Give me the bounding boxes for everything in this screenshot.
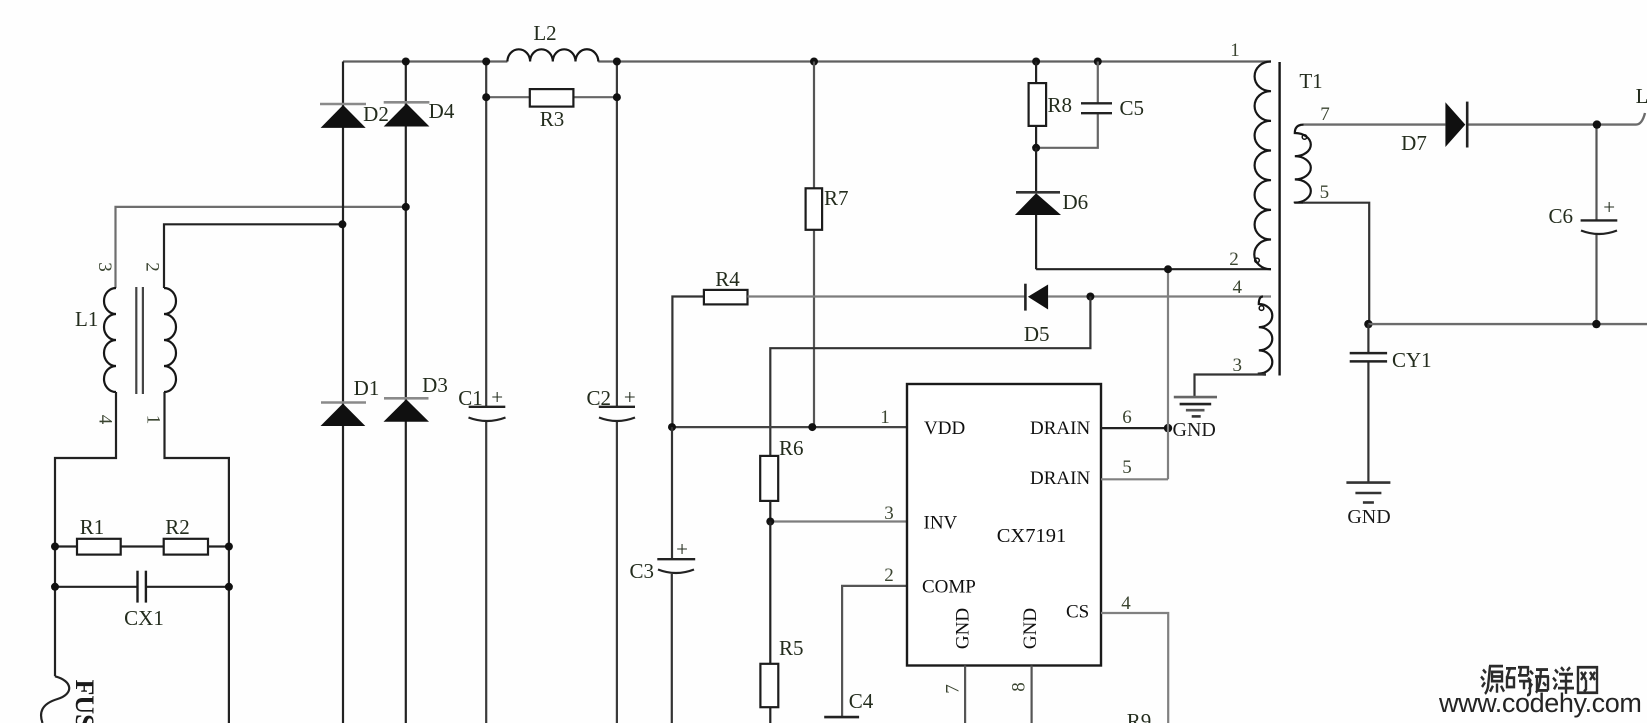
- wire INV row: [766, 518, 907, 526]
- diode D1: [321, 376, 380, 426]
- svg-text:R8: R8: [1048, 93, 1073, 117]
- svg-text:7: 7: [1320, 104, 1330, 125]
- svg-text:D2: D2: [363, 102, 389, 126]
- svg-text:D4: D4: [429, 99, 455, 123]
- svg-text:7: 7: [943, 684, 964, 694]
- wire VDD row: [672, 426, 907, 428]
- svg-text:CX7191: CX7191: [997, 525, 1066, 547]
- svg-text:C6: C6: [1548, 204, 1573, 228]
- svg-text:D5: D5: [1024, 322, 1050, 346]
- wire C2 vertical branch: [616, 62, 618, 723]
- svg-text:R9: R9: [1127, 709, 1152, 723]
- capacitor C2: [586, 385, 635, 421]
- diode D3: [384, 373, 448, 422]
- svg-text:CS: CS: [1066, 602, 1089, 623]
- svg-text:R1: R1: [80, 515, 105, 539]
- svg-text:4: 4: [1121, 593, 1131, 614]
- svg-text:R5: R5: [779, 636, 804, 660]
- node dots R1/CX1 rows: [51, 543, 233, 591]
- node dot D5 output: [1086, 293, 1094, 301]
- transformer T1 aux winding: [1233, 277, 1273, 376]
- wire top AC bus: [343, 60, 1271, 62]
- svg-text:C3: C3: [629, 559, 654, 583]
- svg-text:+: +: [1603, 195, 1615, 219]
- svg-text:C2: C2: [586, 386, 611, 410]
- capacitor CY1: [1350, 324, 1432, 483]
- wire D5 to R6 feedback: [770, 297, 1090, 456]
- svg-text:1: 1: [880, 407, 890, 428]
- svg-text:5: 5: [1122, 457, 1132, 478]
- transformer T1 primary winding: [1229, 40, 1271, 270]
- diode D2: [320, 102, 389, 128]
- svg-text:CX1: CX1: [124, 606, 164, 630]
- svg-text:3: 3: [94, 262, 115, 272]
- inductor L2: [507, 21, 598, 62]
- svg-text:T1: T1: [1299, 69, 1322, 93]
- svg-text:1: 1: [1230, 40, 1240, 61]
- IC pin 8 stub: [1009, 666, 1032, 723]
- svg-text:C4: C4: [849, 689, 874, 713]
- svg-text:L: L: [1636, 84, 1647, 108]
- capacitor C1: [458, 385, 505, 421]
- wire L1 pin3 to D4 junction row: [116, 207, 406, 288]
- wire secondary pin5 down: [1303, 203, 1369, 324]
- IC pin number 6: [1122, 407, 1132, 428]
- IC pin 7 stub: [943, 666, 966, 723]
- svg-text:GND: GND: [1347, 506, 1390, 528]
- svg-text:+: +: [491, 385, 503, 409]
- svg-text:FUSE: FUSE: [70, 680, 99, 723]
- resistor R4: [672, 267, 747, 427]
- diode D6: [1015, 148, 1088, 269]
- svg-text:4: 4: [1233, 277, 1243, 298]
- IC pin number 5: [1122, 457, 1132, 478]
- node dot D4 row: [402, 203, 410, 211]
- wire D4-D3 vertical branch: [405, 62, 407, 723]
- svg-text:1: 1: [143, 415, 164, 425]
- wire DRAIN pin5 row: [1101, 269, 1168, 479]
- svg-text:D6: D6: [1063, 190, 1089, 214]
- common mode choke L1: [75, 262, 176, 425]
- svg-text:DRAIN: DRAIN: [1030, 418, 1090, 439]
- diode D5: [1024, 284, 1050, 346]
- svg-text:GND: GND: [1020, 608, 1041, 649]
- svg-text:R3: R3: [540, 107, 565, 131]
- resistor R8: [1029, 62, 1072, 148]
- resistor R6: [760, 436, 803, 522]
- IC pin number 3: [884, 503, 894, 524]
- svg-text:+: +: [676, 537, 688, 561]
- wire secondary pin7 row: [1304, 113, 1646, 125]
- resistor R9 partial label: [1127, 709, 1152, 723]
- wire COMP row: [842, 586, 907, 717]
- svg-text:5: 5: [1320, 182, 1330, 203]
- IC U1 CX7191: [907, 384, 1101, 666]
- svg-text:L1: L1: [75, 307, 98, 331]
- svg-text:C5: C5: [1120, 96, 1145, 120]
- svg-text:R6: R6: [779, 436, 804, 460]
- svg-text:DRAIN: DRAIN: [1030, 468, 1090, 489]
- IC pin number 1: [880, 407, 890, 428]
- wire aux pin3 to GND: [1195, 375, 1267, 397]
- node dot R8/C5: [1032, 144, 1040, 152]
- transformer T1 secondary winding: [1295, 104, 1330, 203]
- diode D7: [1401, 102, 1467, 155]
- svg-text:D1: D1: [354, 376, 380, 400]
- svg-text:GND: GND: [953, 608, 974, 649]
- node dots VDD row: [668, 423, 816, 431]
- svg-text:2: 2: [884, 565, 894, 586]
- IC pin number 4: [1121, 593, 1131, 614]
- svg-text:R7: R7: [824, 186, 849, 210]
- svg-text:2: 2: [1229, 249, 1239, 270]
- node dot D2 row: [338, 220, 346, 228]
- wire C1 vertical branch: [485, 62, 487, 723]
- svg-text:R2: R2: [165, 515, 190, 539]
- wire L1 pin1 to R2 row: [165, 392, 229, 723]
- ground symbol output GND: [1346, 483, 1390, 528]
- fuse FUSE: [41, 676, 99, 723]
- svg-text:D7: D7: [1401, 131, 1427, 155]
- diode D4: [384, 99, 455, 127]
- wire R4 to D5 row (aux pin 4): [748, 295, 1272, 297]
- capacitor C6: [1548, 125, 1617, 325]
- svg-text:4: 4: [95, 415, 116, 425]
- svg-text:CY1: CY1: [1392, 348, 1432, 372]
- svg-text:C1: C1: [458, 386, 483, 410]
- inductor L3 partial label: [1636, 84, 1647, 108]
- wire CS pin4 row: [1101, 613, 1168, 723]
- resistor R1: [55, 515, 164, 555]
- node dots top bus: [402, 58, 1102, 66]
- wire T1 primary pin2 row: [1036, 265, 1271, 273]
- wire L1 pin2 to D2 junction row: [164, 224, 342, 288]
- wire output bottom rail: [1368, 323, 1647, 325]
- watermark www.codehy.com: [1438, 688, 1641, 718]
- resistor R2: [164, 515, 229, 555]
- capacitor CX1: [55, 571, 229, 630]
- transformer T1 core: [1278, 62, 1280, 376]
- node dots R3 row: [482, 93, 621, 101]
- capacitor C3: [629, 427, 695, 723]
- resistor R5: [760, 522, 803, 723]
- svg-text:COMP: COMP: [922, 577, 976, 598]
- capacitor C5: [1036, 62, 1144, 148]
- svg-text:INV: INV: [924, 513, 958, 534]
- capacitor C4: [824, 689, 874, 717]
- svg-text:2: 2: [142, 262, 163, 272]
- wire D2-D1 vertical branch: [342, 62, 344, 723]
- svg-text:+: +: [624, 385, 636, 409]
- wire L1 pin4 to R1 row: [55, 392, 116, 676]
- svg-text:GND: GND: [1173, 419, 1216, 441]
- node dot CY1 top: [1364, 320, 1372, 328]
- resistor R7: [806, 62, 849, 428]
- node dots output rail: [1592, 120, 1601, 328]
- ground symbol aux GND: [1173, 397, 1217, 441]
- wire DRAIN pin6 row: [1101, 424, 1172, 432]
- svg-text:6: 6: [1122, 407, 1132, 428]
- svg-text:R4: R4: [715, 267, 740, 291]
- watermark CJK 源码海洋网: [1481, 666, 1597, 695]
- svg-text:D3: D3: [422, 373, 448, 397]
- svg-text:8: 8: [1009, 682, 1030, 692]
- IC pin number 2: [884, 565, 894, 586]
- svg-text:3: 3: [1233, 355, 1243, 376]
- svg-text:L2: L2: [533, 21, 556, 45]
- resistor R3: [486, 89, 617, 131]
- svg-text:www.codehy.com: www.codehy.com: [1438, 688, 1641, 718]
- svg-text:VDD: VDD: [924, 418, 965, 439]
- svg-text:3: 3: [884, 503, 894, 524]
- transformer T1 label: [1299, 69, 1322, 93]
